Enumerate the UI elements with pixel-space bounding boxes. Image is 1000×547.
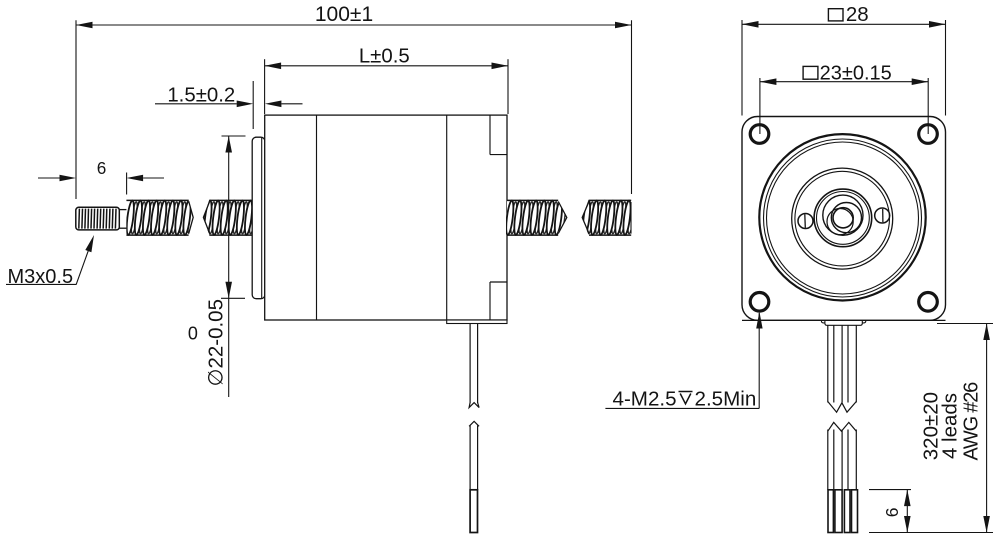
rear end-cap notch top [489, 115, 491, 155]
mounting hole bottom-right [919, 293, 938, 312]
dimension 320±20 wire length [937, 323, 993, 325]
body inner circle 1 [764, 139, 922, 297]
svg-text:4-M2.5: 4-M2.5 [613, 388, 677, 411]
body section line rear [446, 115, 448, 320]
svg-text:23±0.15: 23±0.15 [820, 62, 892, 84]
svg-text:28: 28 [846, 3, 869, 26]
side view lead wire upper segment [469, 324, 471, 404]
lead screw bore circle [833, 208, 853, 228]
break chevron left of thread B [203, 201, 209, 233]
wire break chevron upper [469, 403, 479, 408]
side view: lead screw M3x0.5 threaded end (stud) [76, 207, 120, 230]
break chevron right of thread A [189, 201, 194, 233]
wire bundle break zigzag bottom [828, 402, 857, 413]
bare wire ends (4 leads) [828, 490, 833, 533]
screw neck between M3 stud and lead screw thread [119, 210, 127, 229]
side view bare wire end [470, 490, 477, 533]
lead wire bundle upper segment [827, 325, 829, 403]
lead wire bundle lower segment [827, 430, 829, 490]
svg-text:0: 0 [188, 324, 198, 344]
svg-text:∅22-0.05: ∅22-0.05 [204, 299, 227, 386]
body inner circle 2 [767, 142, 919, 294]
mounting hole bottom-left [750, 293, 769, 312]
wire break chevron lower [469, 421, 479, 426]
shaft ring [823, 195, 863, 235]
dimension 100±1 [75, 20, 77, 199]
pilot plate face line [261, 138, 263, 298]
svg-text:4 leads: 4 leads [939, 393, 962, 459]
break chevron right of thread C [558, 202, 567, 234]
thread D flat end cut [630, 202, 632, 234]
svg-text:6: 6 [97, 158, 107, 178]
motor body outline (side view) [265, 115, 507, 320]
dimension L±0.5 [264, 59, 266, 114]
dimension 1.5±0.2 [252, 81, 254, 129]
svg-text:L±0.5: L±0.5 [359, 45, 410, 67]
body section line front [316, 115, 318, 320]
svg-text:100±1: 100±1 [315, 3, 373, 26]
front flange square outline [742, 117, 946, 321]
bottom terminal strip under rear cap [447, 320, 507, 324]
bearing ring inner [817, 192, 870, 245]
front screw left [798, 214, 813, 229]
M3 stud thread hatching [79, 209, 116, 229]
svg-text:1.5±0.2: 1.5±0.2 [167, 84, 235, 106]
front screw right [875, 208, 890, 223]
wire bundle break zigzag top of lower segment [828, 422, 857, 431]
bearing ring outer [814, 189, 872, 247]
break chevron left of thread D [582, 202, 589, 234]
motor body outer circle (thick) [759, 134, 925, 300]
pilot boss outer circle [792, 168, 893, 269]
mounting hole top-left [750, 125, 769, 144]
pilot boss inner circle [795, 171, 890, 266]
dimension square28 [741, 20, 743, 116]
side view lead wire lower segment [469, 426, 471, 490]
lead screw major dia circle [831, 203, 861, 233]
svg-text:AWG #26: AWG #26 [961, 382, 983, 461]
dimension 6 (M3 thread length) [126, 173, 128, 195]
dimension dia22 0/-0.05 [228, 136, 230, 397]
lead screw helix arc [827, 209, 853, 235]
front pilot plate (boss, dia 22) [252, 137, 265, 299]
svg-text:2.5Min: 2.5Min [695, 388, 757, 411]
mounting hole top-right [919, 125, 938, 144]
rear end-cap notch bottom [489, 282, 491, 320]
dimension 6 bare wire length [869, 489, 911, 491]
dimension square23±0.15 [759, 78, 761, 134]
wire exit stub [821, 320, 865, 323]
flange bottom edge over stub [742, 319, 946, 321]
svg-text:6: 6 [882, 508, 902, 518]
